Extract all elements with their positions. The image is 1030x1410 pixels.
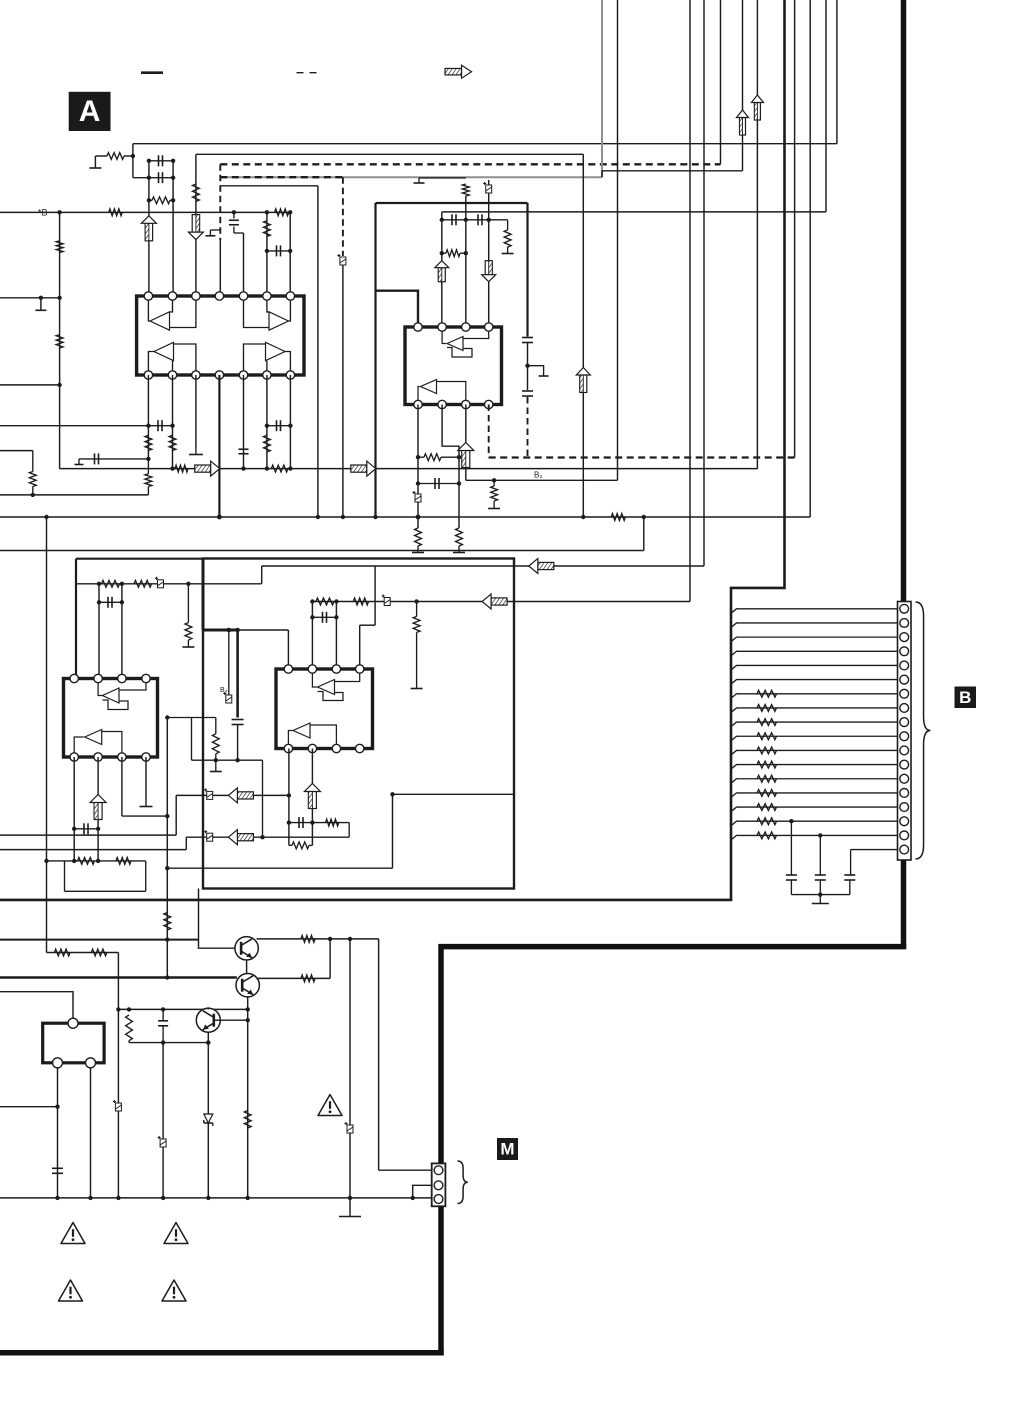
node n19 xyxy=(288,466,292,470)
arrow up on pin1 column xyxy=(145,223,152,241)
wire R33 left lead xyxy=(289,844,292,846)
capacitor C16 xyxy=(322,612,324,623)
node n63 xyxy=(260,835,264,839)
ground G2 xyxy=(35,309,46,311)
wire R40 lower lead xyxy=(32,487,34,495)
resistor R35 xyxy=(91,949,107,956)
wire x238 below cap xyxy=(237,725,239,761)
svg-text:B: B xyxy=(959,688,971,707)
node n71 xyxy=(246,1007,250,1011)
op-amp U2b xyxy=(421,380,437,394)
node loop-col xyxy=(44,859,48,863)
node row17 tap xyxy=(818,833,822,837)
wire y385 stub xyxy=(0,384,60,386)
node n70 xyxy=(348,937,352,941)
resistor R22 xyxy=(102,580,120,587)
resistor R36 xyxy=(301,936,315,943)
wire pin3 column lower xyxy=(195,375,197,448)
warning triangle 2 xyxy=(61,1223,85,1244)
node n47 xyxy=(235,758,239,762)
wire x583 column xyxy=(582,154,584,517)
ground G4 xyxy=(75,464,84,466)
wire pin6 column upper xyxy=(266,212,268,296)
wire connector B row 17 xyxy=(731,835,898,840)
wire connector B row 3 xyxy=(731,637,898,642)
resistor R_conn15 xyxy=(757,804,777,811)
wire gnd stem G16 xyxy=(819,895,821,904)
op-amp U4b xyxy=(293,723,310,738)
wire U1a input xyxy=(170,300,173,312)
wire x163 column xyxy=(162,1043,164,1198)
diode D1 zener xyxy=(204,1114,213,1123)
wire x262 link xyxy=(262,760,264,837)
node bus dot x163.1 xyxy=(161,1196,165,1200)
ground G17 xyxy=(339,1216,361,1218)
wire IC2 feed step xyxy=(376,291,419,323)
node n75 xyxy=(206,1007,210,1011)
resistor R39 xyxy=(126,1015,133,1041)
node n35 xyxy=(44,515,48,519)
node n12 xyxy=(146,424,150,428)
wire caps common y895 xyxy=(791,894,849,896)
wire y1009 row xyxy=(118,1008,247,1010)
node n50 xyxy=(310,599,314,603)
wire connector B row 2 xyxy=(731,623,898,628)
resistor R10 xyxy=(169,435,176,450)
wire IC3 pin2 column top xyxy=(98,584,100,679)
ground G3 xyxy=(205,235,215,237)
resistor R15 xyxy=(504,230,511,247)
wire R25 top lead xyxy=(215,718,217,734)
wire y551 long xyxy=(0,550,644,552)
wire IC4 pin2 col lower xyxy=(311,749,313,846)
wire box around IC2 top edge xyxy=(376,202,528,204)
wire R20 top lead xyxy=(493,480,495,486)
wire U1a tip lead xyxy=(148,300,150,321)
wire U4a feedback xyxy=(318,692,344,701)
node x167-bold-rail xyxy=(165,975,169,979)
wire net5 riser x757 lower xyxy=(756,120,758,469)
wire cap row y484 xyxy=(418,483,459,485)
capacitor C3 xyxy=(229,219,239,221)
wire net2 horizontal y154 xyxy=(196,153,583,155)
node jog-row xyxy=(131,154,135,158)
wire cap row y617 IC4 xyxy=(312,616,336,618)
node n33 xyxy=(525,364,529,368)
node n61 xyxy=(165,937,169,941)
resistor R_conn16 xyxy=(757,818,777,825)
node n43 xyxy=(97,600,101,604)
wire arrow net y837 xyxy=(186,836,349,838)
node bus dot x247.7 xyxy=(246,1196,250,1200)
resistor R17 xyxy=(415,528,422,546)
wire U3b tip lead xyxy=(74,737,84,753)
wire W3 bold overlay left edge xyxy=(202,559,205,631)
wire U1d tip lead xyxy=(285,352,290,372)
wire x351 gnd tail xyxy=(349,1198,351,1217)
node n58 xyxy=(96,859,100,863)
wire connector B row 8 xyxy=(731,708,898,713)
node n62 xyxy=(287,793,291,797)
wire gnd stem G5 xyxy=(195,448,197,455)
wire R28 top lead xyxy=(416,602,418,617)
legend signal arrow xyxy=(445,68,462,75)
wire IC4 pin3 column top xyxy=(335,602,337,670)
wire connector B row 4 xyxy=(731,651,898,656)
relay K1 xyxy=(43,1023,104,1063)
wire row18 drop xyxy=(850,850,852,875)
wire Q2 collector net y978 xyxy=(258,977,331,979)
ground G8 xyxy=(412,552,424,554)
ground G16 xyxy=(812,903,829,905)
capacitor C17 xyxy=(83,823,85,834)
wire IC3 pin2 col lower xyxy=(97,757,99,861)
wire page border left-bottom vertical xyxy=(438,944,444,1356)
bead on x343 xyxy=(340,257,346,265)
wire x167 column xyxy=(166,718,168,978)
wire shield box top riser xyxy=(783,0,786,589)
node n37 xyxy=(341,515,345,519)
wire cap20 bottom lead xyxy=(819,880,821,895)
wire inner box A outline xyxy=(203,559,514,889)
wire grey net horizontal y177 xyxy=(220,176,602,178)
wire R25 bottom lead xyxy=(215,754,217,760)
node n10 xyxy=(265,249,269,253)
wire left column x60 xyxy=(59,212,61,468)
wire U2a tip lead xyxy=(442,331,446,344)
wire bus y212 right segment xyxy=(442,211,826,213)
wire R41 lower lead xyxy=(147,487,149,495)
capacitor C19 xyxy=(786,874,797,876)
arrow left W1 xyxy=(538,562,554,569)
wire page border step horizontal xyxy=(439,944,907,950)
wire cap row y426 right xyxy=(267,425,291,427)
capacitor C1 xyxy=(158,172,160,183)
node bus-267 xyxy=(265,210,269,214)
wire IC2 pin1 col lower xyxy=(417,405,419,529)
op-amp U2a xyxy=(447,337,463,351)
capacitor C4 xyxy=(276,245,278,256)
ground G11 xyxy=(539,375,549,377)
resistor R14 x466 col xyxy=(462,184,469,196)
wire IC4 pin1 column top xyxy=(287,630,289,669)
wire connector B row 6 xyxy=(731,680,898,685)
wire U1c tip lead xyxy=(148,352,154,372)
wire loop left xyxy=(64,861,66,891)
node n3 xyxy=(147,159,151,163)
wire IC2 pin3 col lower xyxy=(465,405,467,481)
resistor R_conn7 xyxy=(757,690,777,697)
wire connector B row 11 xyxy=(731,750,898,755)
node n56 xyxy=(96,827,100,831)
wire connector B row 18 xyxy=(851,849,898,851)
capacitor C9 xyxy=(451,214,453,225)
node n23 xyxy=(464,218,468,222)
node n24 xyxy=(487,218,491,222)
capacitor C21 xyxy=(844,874,855,876)
node n41 xyxy=(120,582,124,586)
ground G15 xyxy=(140,806,153,808)
resistor R34 xyxy=(54,949,70,956)
wire pin7 column lower xyxy=(289,375,291,469)
resistor R4 on bus xyxy=(109,209,122,216)
node n77 xyxy=(161,1040,165,1044)
wire pin7 column upper xyxy=(289,212,291,296)
wire y835 to left edge xyxy=(0,834,176,836)
arrow on riser x757 xyxy=(754,103,760,121)
wire cap row y178 xyxy=(133,177,173,179)
wire solid net y186 xyxy=(220,185,318,187)
node n7 xyxy=(57,296,61,300)
node n78 xyxy=(206,1040,210,1044)
node n1 xyxy=(147,176,151,180)
node n34 xyxy=(581,515,585,519)
resistor R33 rung xyxy=(292,842,309,849)
wire W1 jog y625 xyxy=(360,624,375,626)
warning triangle 1 xyxy=(318,1095,342,1116)
wire IC1 pin1 column xyxy=(148,161,150,296)
wire y459 row xyxy=(79,458,148,460)
wire cap21 bottom lead xyxy=(849,880,851,895)
resistor R_conn17 xyxy=(757,832,777,839)
capacitor C20 xyxy=(815,874,826,876)
node n45 xyxy=(227,628,232,633)
wire R20 gnd lead xyxy=(493,501,495,509)
wire U1b feedback xyxy=(244,300,270,328)
node n69 xyxy=(328,937,332,941)
wire M pin1 net xyxy=(379,1169,432,1171)
op-amp U2 package xyxy=(405,327,502,405)
node n36 xyxy=(316,515,320,519)
wire pin4 column solid xyxy=(219,240,221,296)
bead B5 xyxy=(384,598,390,606)
wire bus tap x442 xyxy=(441,212,443,220)
op-amp U3 package xyxy=(64,679,158,758)
wire connector B row 13 xyxy=(731,779,898,784)
wire shield box right edge xyxy=(730,587,733,900)
node n57 xyxy=(72,859,76,863)
wire x644 drop xyxy=(643,517,645,551)
wire loop row y861 xyxy=(47,860,146,862)
arrow up IC3 pin2 lower xyxy=(94,803,102,820)
wire bold drop x238 xyxy=(236,630,239,718)
wire caps row y220 xyxy=(442,219,508,221)
capacitor C5 xyxy=(157,420,159,431)
arrow left y795 xyxy=(237,792,253,799)
transistor Q3 xyxy=(196,1008,220,1032)
node n54 xyxy=(334,615,338,619)
wire x330 link xyxy=(329,939,331,979)
op-amp U1b xyxy=(269,312,289,330)
op-amp U1 package xyxy=(137,296,304,375)
wire cap row y829 xyxy=(74,828,98,830)
wire x466 col upper xyxy=(465,196,467,220)
arrow left W2 xyxy=(491,598,507,605)
node n4 xyxy=(171,159,175,163)
resistor R13 xyxy=(271,465,288,472)
wire shield box step xyxy=(731,587,785,590)
wire Q2 emitter column xyxy=(247,997,249,1198)
svg-text:A: A xyxy=(79,95,101,128)
wire R19 gnd lead xyxy=(458,546,460,553)
wire x33 drop xyxy=(32,451,34,472)
wire page border right upper xyxy=(901,0,907,602)
wire dashed overlay on grey net xyxy=(220,176,343,178)
capacitor C2 xyxy=(158,155,160,166)
resistor R38 xyxy=(244,1111,251,1129)
wire net4 riser x742 upper xyxy=(742,0,744,110)
wire cap stub top x234 xyxy=(233,212,235,218)
wire Q1 emitter link xyxy=(246,960,248,974)
capacitor C10 xyxy=(477,214,479,225)
wire U2a base wiring xyxy=(463,331,489,339)
wire y426 row xyxy=(0,425,173,427)
ground G12 xyxy=(182,646,194,648)
node n16 xyxy=(241,466,245,470)
wire U4a base wiring xyxy=(335,673,360,682)
wire bus y212 left segment xyxy=(0,211,290,213)
wire riser x318 xyxy=(317,186,319,517)
wire G1 to x133 xyxy=(95,155,107,157)
node n40 xyxy=(97,582,101,586)
wire IC3 bold feed horizontal xyxy=(76,558,203,560)
resistor R40 xyxy=(29,472,36,487)
resistor R_conn8 xyxy=(757,705,777,712)
wire Q1 collector net y939 xyxy=(257,938,379,940)
bead B1 on x489 xyxy=(486,185,492,193)
wire pin1 col extension xyxy=(147,459,149,474)
node n6 xyxy=(171,198,175,202)
wire U1a feedback xyxy=(170,300,196,328)
resistor R7 xyxy=(56,335,63,348)
op-amp U1d xyxy=(266,342,286,360)
wire R17 gnd lead xyxy=(417,546,419,553)
wire Q3 emitter column xyxy=(207,1032,209,1198)
wire x198 riser xyxy=(198,889,200,940)
capacitor C13 on box2 edge xyxy=(522,390,533,392)
wire M pin1 riser xyxy=(378,939,380,1170)
wire IC2 pin4 dashed drop xyxy=(488,405,490,458)
wire y459 end bend xyxy=(78,459,80,465)
node n67 xyxy=(818,892,822,896)
legend solid line sample xyxy=(141,71,163,74)
wire U3a feedback xyxy=(102,700,128,710)
op-amp U4a xyxy=(318,680,335,695)
op-amp U3a xyxy=(102,688,119,703)
wire IC2 pin2 column top xyxy=(441,220,443,327)
wire y952 row xyxy=(47,952,119,954)
wire riser x794 dashed-turn xyxy=(794,0,796,458)
legend dashed line sample xyxy=(297,72,319,74)
wire y298 stub xyxy=(0,297,60,299)
wire riser x617 xyxy=(617,0,619,480)
wire U4b tip lead xyxy=(288,731,292,745)
capacitor C22 xyxy=(158,1020,168,1022)
wire x118 column xyxy=(117,953,119,1198)
resistor R24 xyxy=(185,623,192,640)
node n21 xyxy=(170,466,174,470)
resistor R2 row y200 xyxy=(152,197,170,204)
ground G5 xyxy=(189,454,203,456)
node n65 xyxy=(310,820,314,824)
ground G9 xyxy=(453,552,465,554)
svg-text:B₄: B₄ xyxy=(220,687,228,694)
node n49 xyxy=(214,758,218,762)
wire riser x810 xyxy=(809,0,811,517)
wire cap row y251 xyxy=(267,250,290,252)
wire y977 rail xyxy=(0,976,237,978)
node n66 xyxy=(390,792,394,796)
arrow up x583 xyxy=(580,375,587,393)
wire M pin2 net xyxy=(413,1185,432,1198)
wire page border right mid xyxy=(901,859,907,949)
wire W3 bold y630 xyxy=(203,629,238,632)
bead B7 xyxy=(207,833,213,841)
wire connector B row 9 xyxy=(731,722,898,727)
wire row16 cap drop xyxy=(790,821,792,874)
bead B6 xyxy=(207,791,213,799)
wire IC4 pin2 column top xyxy=(311,602,313,670)
resistor R5 on bus xyxy=(275,209,289,216)
wire U2b tip lead xyxy=(418,387,420,401)
wire x191 link xyxy=(191,718,193,761)
transistor Q1 xyxy=(235,937,258,960)
node n80 xyxy=(55,1105,59,1109)
op-amp U4 package xyxy=(276,669,373,749)
resistor R28 xyxy=(413,616,420,632)
node n25 xyxy=(440,251,444,255)
wire W1 drop x375 xyxy=(374,566,376,625)
wire gnd wire y178 xyxy=(419,177,466,179)
wire U4b base wiring xyxy=(310,725,336,744)
node n53 xyxy=(310,615,314,619)
node bus dot x118.4 xyxy=(116,1196,120,1200)
node n32 xyxy=(492,478,496,482)
wire pin1 column lower xyxy=(147,375,149,459)
bead B4 xyxy=(226,695,232,703)
wire gnd stem G15 xyxy=(145,800,147,807)
wire dashed net D1 y164 xyxy=(220,163,720,165)
node n8 xyxy=(57,383,61,387)
wire long net y517 xyxy=(0,516,810,518)
wire stub to gnd xyxy=(528,366,544,376)
wire C22 bottom lead xyxy=(162,1026,164,1043)
node n9 xyxy=(39,296,43,300)
node n48 xyxy=(165,715,169,719)
warning triangle 3 xyxy=(164,1223,188,1244)
wire U1d feedback xyxy=(244,344,266,371)
wire R39 bottom lead xyxy=(128,1041,130,1043)
wire R16 right lead xyxy=(460,252,466,254)
wire IC4 pin4 column top xyxy=(359,625,361,669)
node n55 xyxy=(72,827,76,831)
node n29 xyxy=(416,515,421,520)
wire U1b tip lead xyxy=(289,300,291,321)
wire arrow net y795 xyxy=(176,794,289,796)
wire bottom bus y1198 xyxy=(0,1197,432,1199)
wire y717 row xyxy=(167,717,216,719)
transistor Q2 xyxy=(236,974,259,997)
node n2 xyxy=(171,176,175,180)
wire long net y469 xyxy=(60,468,758,470)
node bus dot x350 xyxy=(348,1196,352,1200)
node n39 xyxy=(642,515,646,519)
node n31 xyxy=(457,481,461,485)
capacitor C15 xyxy=(232,719,244,721)
wire relay pin B column xyxy=(90,1068,92,1198)
wire net4 jog vertical xyxy=(601,171,603,177)
ground G13 xyxy=(210,771,222,773)
